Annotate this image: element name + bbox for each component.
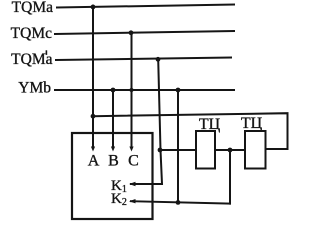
junction dot K2 wire at b vertical — [176, 200, 181, 205]
wire YMb vertical to K2 — [177, 90, 179, 202]
svg-text:ТЦ: ТЦ — [241, 115, 263, 132]
wire phase A drop — [92, 7, 94, 147]
arrow into B — [111, 147, 115, 152]
wire bus TQMa' — [56, 58, 231, 61]
svg-text:TQMa: TQMa — [12, 0, 53, 16]
junction dot on TQMc at C drop — [129, 30, 134, 35]
wire TH1 right to TH2 left — [215, 149, 245, 151]
junction dot on YMb at B drop — [111, 88, 116, 93]
control box — [72, 133, 153, 219]
wire phase C drop — [131, 33, 133, 147]
wire phase B drop — [112, 90, 114, 147]
svg-text:YMb: YMb — [18, 80, 51, 97]
junction dot on TQMa at A drop — [91, 5, 96, 10]
junction dot a' branch — [158, 148, 163, 153]
net label TQMa' — [11, 50, 52, 68]
wire bus TQMa — [57, 5, 234, 8]
wire K2 — [131, 201, 230, 203]
svg-text:A: A — [88, 153, 100, 170]
junction dot on TQMa' at a' vertical — [156, 57, 161, 62]
junction dot mid tap between TH1 TH2 — [228, 148, 233, 153]
transformer TH1 — [196, 131, 215, 169]
junction dot top link at A drop — [91, 114, 96, 119]
net label TQMc — [11, 25, 52, 42]
wire bus TQMc — [55, 31, 234, 34]
arrow into A — [91, 147, 95, 152]
transformer TH2 — [245, 131, 266, 169]
wire bus YMb — [55, 89, 234, 91]
wire a' vertical to K1 — [131, 59, 162, 184]
svg-text:TQMc: TQMc — [11, 25, 52, 42]
net label TQMa — [12, 0, 53, 16]
arrow into K1 — [129, 182, 136, 186]
arrow into K2 — [129, 199, 136, 203]
net label YMb — [18, 80, 51, 97]
arrow into C — [129, 147, 133, 152]
svg-text:B: B — [108, 153, 119, 170]
wire mid tap riser — [229, 150, 231, 204]
svg-text:C: C — [128, 153, 139, 170]
svg-text:ТЦ: ТЦ — [199, 116, 221, 133]
wire a' branch to TH1 left — [160, 149, 196, 151]
wire top link A to TH2 right — [93, 113, 288, 149]
junction dot on YMb at b vertical — [176, 88, 181, 93]
junction dot crossing YMb and C drop — [129, 88, 133, 92]
